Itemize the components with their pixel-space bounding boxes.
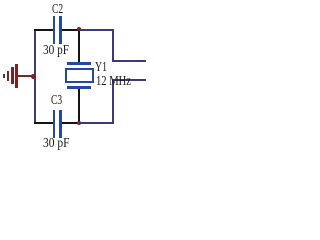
label 12 MHz [96, 75, 131, 89]
label C2 [52, 3, 63, 17]
junction bottom node [77, 121, 82, 126]
wire right vertical upper [112, 29, 114, 62]
wire right vertical lower [112, 79, 114, 125]
wire bottom row right segment [79, 122, 114, 124]
crystal Y1 bottom plate [67, 86, 91, 89]
label 30 pF (C2) [43, 44, 69, 58]
ground bar 2 [11, 67, 14, 84]
crystal Y1 top pin [78, 31, 80, 63]
junction top node [77, 27, 82, 32]
wire bottom row (pin of C3 right) [62, 122, 79, 124]
ground stroke [17, 75, 35, 78]
wire upper right horizontal [112, 60, 147, 62]
ground bar 1 [15, 64, 18, 88]
ground bar 4 [3, 74, 5, 78]
label C3 [51, 94, 62, 108]
crystal Y1 body [65, 68, 95, 83]
ground junction node [31, 74, 36, 79]
ground bar 3 [7, 71, 10, 82]
label 30 pF (C3) [43, 137, 69, 151]
wire bottom row (pin of C3 left) [34, 122, 53, 124]
wire lower right horizontal [112, 79, 147, 81]
wire top row (pin of C2 left) [34, 29, 53, 31]
capacitor C3 [53, 110, 56, 138]
crystal Y1 bottom pin [78, 89, 80, 123]
wire top row (pin of C2 right) [62, 29, 79, 31]
capacitor C2 [53, 16, 56, 44]
crystal Y1 top plate [67, 62, 91, 65]
wire top row right segment [79, 29, 114, 31]
wire left vertical [34, 29, 36, 124]
label Y1 [95, 61, 107, 75]
